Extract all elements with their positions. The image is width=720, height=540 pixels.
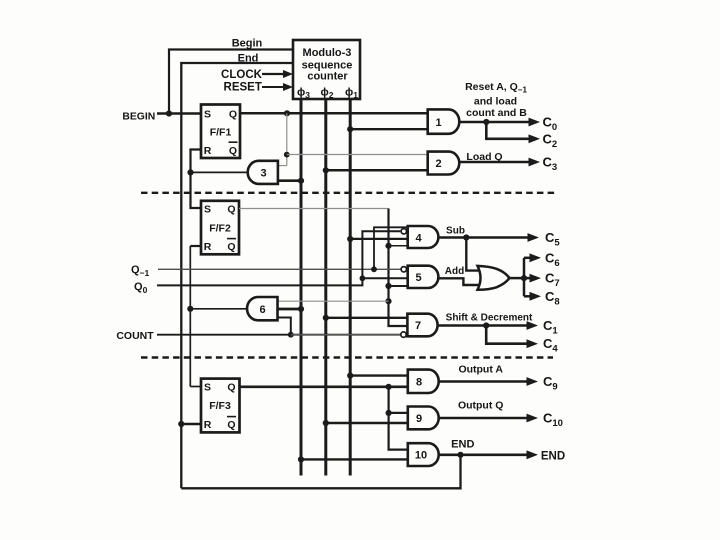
svg-text:Output Q: Output Q <box>458 400 504 412</box>
flip-flop F/F1 box <box>201 105 240 159</box>
svg-text:END: END <box>541 450 565 462</box>
junction gate3 output node <box>187 169 193 175</box>
wire F/F2 Q line <box>239 208 389 210</box>
wire gate 2 output <box>459 161 529 164</box>
wire gate 1 bottom input from phi1 <box>350 128 428 130</box>
dashed separator upper <box>141 192 555 194</box>
svg-text:R: R <box>204 419 212 431</box>
and-gate 9 <box>408 407 439 430</box>
wire Q0 line <box>157 231 400 285</box>
and-gate 5 <box>408 266 439 288</box>
or-gate U1 <box>478 266 510 290</box>
wire C4 branch <box>486 326 527 344</box>
wire gate 2 bottom input from phi2 <box>326 169 428 172</box>
junction phi1 gate8 <box>347 373 353 379</box>
and-gate 3 <box>248 161 278 184</box>
wire Q0 branch to gate 5 <box>362 277 407 279</box>
junction rail to gate 9 <box>386 410 392 416</box>
junction Sub fanout <box>463 234 469 240</box>
svg-text:Output A: Output A <box>458 364 503 376</box>
wire F/F3 Q rail vertical <box>389 387 408 450</box>
svg-text:BEGIN: BEGIN <box>122 112 155 123</box>
svg-text:COUNT: COUNT <box>116 330 154 342</box>
svg-text:S: S <box>204 382 211 394</box>
wire phi2 vertical <box>324 99 327 476</box>
wire gate 3 top input jog <box>278 165 287 167</box>
arrowhead C8 <box>530 292 542 301</box>
junction END feedback <box>457 452 463 458</box>
wire F/F1 Q to gate 1 <box>240 112 428 115</box>
svg-text:Q: Q <box>229 109 237 121</box>
wire gate 9 output <box>439 417 527 420</box>
wire gate 3 bottom input from phi3 <box>278 179 301 182</box>
wire C2 branch <box>486 122 529 139</box>
svg-text:F/F1: F/F1 <box>210 127 232 139</box>
svg-text:Modulo-3: Modulo-3 <box>303 47 352 59</box>
junction OR fanout <box>521 275 527 281</box>
wire F/F1 Q branch vertical <box>286 113 288 165</box>
wire F/F3 S input <box>190 386 201 388</box>
svg-text:2: 2 <box>436 158 442 170</box>
wire phi1 to gate 8 <box>350 374 408 376</box>
wire rail branch to gate 5 <box>389 285 408 287</box>
junction phi3 gate3 <box>298 178 304 184</box>
svg-text:3: 3 <box>260 168 266 180</box>
and-gate 8 <box>408 370 439 393</box>
svg-text:Q: Q <box>227 382 235 394</box>
junction gate1 fanout <box>483 119 489 125</box>
wire gate 3 output <box>191 171 248 173</box>
wire F/F2 Q rail vertical <box>389 209 408 327</box>
wire End vertical (feedback riser) <box>181 63 293 488</box>
svg-text:R: R <box>204 145 212 157</box>
svg-text:END: END <box>451 439 474 451</box>
svg-text:S: S <box>204 203 211 215</box>
and-gate 6 <box>247 297 277 320</box>
svg-text:R: R <box>204 241 212 253</box>
wire phi2 to gate 7 <box>326 317 408 319</box>
svg-text:Shift & Decrement: Shift & Decrement <box>446 313 533 324</box>
F/F2 Qbar overline <box>227 238 236 240</box>
gate 7 inverted input bubble <box>401 332 406 337</box>
junction gate6 output node <box>187 306 193 312</box>
junction Q-1 riser <box>371 266 377 272</box>
junction Q0 riser branch <box>360 275 366 281</box>
junction phi1 gate1 <box>347 126 353 132</box>
wire F/F1 R input <box>191 150 202 209</box>
and-gate 2 <box>428 152 460 175</box>
wire phi1 vertical <box>349 99 352 476</box>
wire Begin (BEGIN to counter) <box>169 50 293 114</box>
svg-text:Q: Q <box>229 145 237 157</box>
svg-text:counter: counter <box>307 71 348 83</box>
wire phi2 to gate 9 <box>326 422 408 424</box>
svg-text:CLOCK: CLOCK <box>221 69 263 81</box>
junction phi1 gate4 <box>347 236 353 242</box>
junction phi3 gate6 <box>298 306 304 312</box>
dashed separator lower <box>141 356 553 358</box>
svg-text:10: 10 <box>415 450 427 462</box>
svg-text:F/F3: F/F3 <box>209 400 231 412</box>
and-gate 4 <box>408 226 439 248</box>
svg-text:S: S <box>204 109 211 121</box>
svg-text:8: 8 <box>416 376 422 388</box>
arrowhead C1 <box>527 321 539 330</box>
wire Q-1 line <box>158 268 402 270</box>
modulo-3 sequence counter box <box>293 40 360 99</box>
wire gate 6 phi3 input <box>278 308 302 311</box>
arrowhead C0 <box>529 118 541 127</box>
arrowhead C6 <box>530 253 542 262</box>
flip-flop F/F3 box <box>201 379 240 433</box>
junction phi2 gate9 <box>323 420 329 426</box>
wire phi3 vertical <box>300 99 303 476</box>
junction rail to gate 5 <box>385 283 391 289</box>
and-gate 10 <box>408 443 439 466</box>
arrowhead C9 <box>527 377 539 386</box>
svg-text:Sub: Sub <box>446 225 465 236</box>
wire F/F2 R input <box>190 245 201 247</box>
arrowhead END <box>527 450 539 459</box>
junction BEGIN-Begin <box>166 110 172 116</box>
wire F/F3 Q to gate 8 <box>240 385 408 388</box>
wire OR fanout vertical <box>523 258 526 297</box>
junction F/F3 Q branch <box>386 384 392 390</box>
wire BEGIN input <box>157 112 201 114</box>
svg-text:1: 1 <box>436 117 442 129</box>
gate 4 inverted input bubble <box>401 229 406 234</box>
wire END feedback <box>181 455 460 489</box>
arrowhead C3 <box>529 158 541 167</box>
wire gate 2 top input <box>287 154 428 156</box>
wire COUNT line <box>157 334 400 336</box>
and-gate 1 <box>428 109 460 133</box>
wire gate 8 output <box>439 380 527 383</box>
wire C7 stub <box>524 277 530 280</box>
junction COUNT gate6 <box>288 332 294 338</box>
arrowhead CLOCK <box>283 70 293 78</box>
arrowhead C2 <box>529 134 541 143</box>
flip-flop F/F2 box <box>201 201 239 255</box>
arrowhead C7 <box>530 274 542 283</box>
junction phi2 gate2 <box>323 167 329 173</box>
arrowhead C5 <box>528 233 540 242</box>
wire Sub to OR gate <box>466 238 479 271</box>
junction phi2 gate7 <box>323 315 329 321</box>
svg-text:4: 4 <box>416 232 423 244</box>
svg-text:Add: Add <box>445 266 464 277</box>
wire rail branch to gate 4 <box>389 245 408 247</box>
wire gate 6 output riser <box>189 246 191 387</box>
svg-text:Q: Q <box>227 419 235 431</box>
junction F/F1 Q branch <box>284 110 290 116</box>
svg-text:5: 5 <box>416 272 422 284</box>
wire RESET <box>262 86 284 88</box>
wire gate 4 output <box>438 236 528 239</box>
svg-text:Q: Q <box>227 203 235 215</box>
arrowhead C10 <box>527 414 539 423</box>
svg-text:RESET: RESET <box>224 82 262 94</box>
svg-text:7: 7 <box>415 320 421 332</box>
arrowhead C4 <box>527 339 539 348</box>
junction End line R input <box>178 421 184 427</box>
junction F/F1 Q branch to gate 2 <box>284 152 290 158</box>
wire F/F3 R input <box>181 423 201 425</box>
svg-text:F/F2: F/F2 <box>209 223 231 235</box>
F/F3 Qbar overline <box>227 416 236 418</box>
wire phi1 to gate 4 <box>350 238 408 240</box>
wire gate 1 output <box>459 121 529 124</box>
wire gate 6 COUNT input <box>278 318 291 335</box>
wire COUNT to gate 7 bubble <box>291 334 400 336</box>
svg-text:Begin: Begin <box>232 38 263 50</box>
gate 5 inverted input bubble <box>401 267 406 272</box>
wire Q-1 riser to gate 4 <box>374 227 408 269</box>
wire gate 6 output <box>190 308 248 310</box>
svg-text:count and B: count and B <box>466 107 527 119</box>
wire C6 stub <box>524 257 530 260</box>
and-gate 7 <box>407 314 437 337</box>
wire gate 10 output <box>439 453 527 456</box>
svg-text:6: 6 <box>259 304 265 316</box>
svg-text:and load: and load <box>474 96 517 108</box>
junction gate7 fanout <box>483 322 489 328</box>
wire phi3 to gate 10 <box>301 458 408 460</box>
junction rail to gate 4 <box>385 243 391 249</box>
wire OR output <box>509 277 524 280</box>
F/F1 Qbar overline <box>229 141 238 143</box>
junction phi3 gate10 <box>298 456 304 462</box>
wire rail branch to gate 6 <box>278 300 389 302</box>
wire C8 stub <box>524 295 530 298</box>
wire CLOCK <box>262 73 284 75</box>
wire rail branch to gate 9 <box>389 412 408 414</box>
svg-text:Q: Q <box>227 241 235 253</box>
wire gate 5 output <box>438 278 479 285</box>
svg-text:9: 9 <box>416 413 422 425</box>
arrowhead RESET <box>283 83 293 91</box>
wire gate 7 output <box>438 324 527 327</box>
junction rail to gate 6 <box>385 298 391 304</box>
